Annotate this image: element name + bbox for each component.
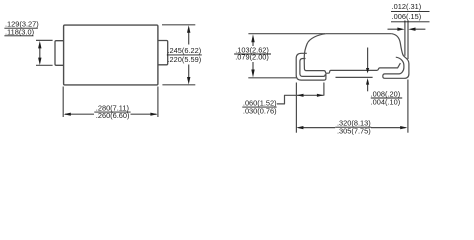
side view body top	[326, 33, 392, 35]
.008 arrows	[366, 68, 369, 73]
dim .320 extension line right	[407, 80, 409, 133]
.280 arrows	[64, 113, 71, 116]
svg-text:.030(0.76): .030(0.76)	[243, 107, 277, 116]
svg-text:.305(7.75): .305(7.75)	[337, 126, 371, 135]
front view right tab	[158, 41, 168, 65]
dim .280 line	[65, 113, 94, 115]
arrowheads	[38, 25, 415, 129]
side view body right shoulder slant into lead outer	[383, 34, 409, 79]
dim .320 line	[299, 127, 336, 129]
side view left lead inner	[300, 59, 325, 77]
.012 arrows	[397, 28, 404, 31]
svg-text:.245(6.22): .245(6.22)	[168, 46, 202, 55]
side view body left shoulder slant and bottom centre line	[304, 34, 400, 73]
dim .060 leader	[277, 95, 324, 104]
dim .008 arrow lines	[367, 48, 369, 70]
dim tab-height arrow line	[39, 45, 41, 62]
svg-text:.260(6.60): .260(6.60)	[96, 111, 130, 120]
dim .245 arrow line	[188, 28, 190, 45]
svg-text:.006(.15): .006(.15)	[392, 12, 422, 21]
.103 arrows	[251, 34, 254, 42]
dim tab-height extension lines	[36, 39, 53, 41]
side view left lead outer	[296, 53, 326, 80]
svg-text:.079(2.00): .079(2.00)	[235, 53, 269, 62]
side view body pedestal line	[336, 76, 373, 78]
.060 arrows	[297, 94, 304, 97]
side view right lead vertical extension outer	[407, 20, 409, 59]
svg-text:.118(3.0): .118(3.0)	[5, 27, 34, 36]
dim .280 extension lines	[62, 87, 64, 118]
dim .060 extension lines	[295, 83, 297, 133]
.320 arrows	[296, 126, 303, 129]
.245 arrows	[187, 25, 190, 33]
front view left tab	[55, 41, 64, 66]
front view body	[64, 25, 158, 85]
dim .103 extension lines	[248, 33, 325, 35]
dim .245 extension lines	[162, 24, 195, 26]
dim .103 arrow line	[252, 38, 254, 46]
side view right lead vertical extension inner	[404, 20, 406, 55]
dimension texts	[4, 2, 429, 136]
svg-text:.004(.10): .004(.10)	[371, 97, 401, 106]
dim .012 arrow lines	[388, 28, 401, 30]
svg-text:.012(.31): .012(.31)	[392, 2, 422, 11]
svg-text:.220(5.59): .220(5.59)	[168, 55, 202, 64]
tab height arrows	[38, 41, 41, 49]
